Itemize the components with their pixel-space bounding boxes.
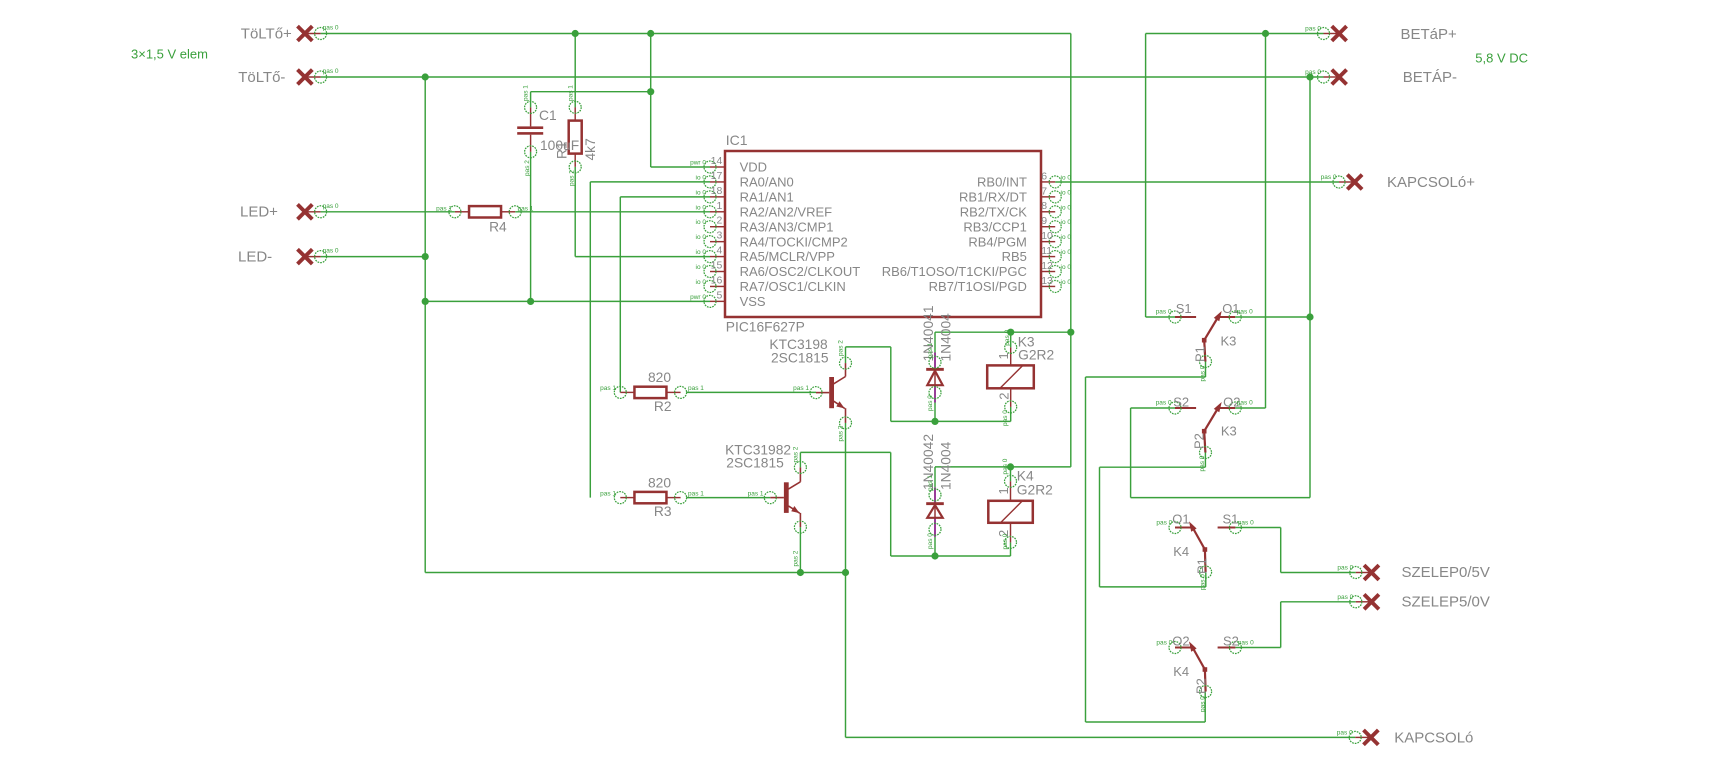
svg-text:RB3/CCP1: RB3/CCP1 [963, 219, 1027, 234]
svg-text:RA6/OSC2/CLKOUT: RA6/OSC2/CLKOUT [740, 264, 861, 279]
svg-text:pas 0: pas 0 [1002, 458, 1009, 474]
svg-text:pas 0: pas 0 [927, 533, 934, 549]
svg-text:G2R2: G2R2 [1018, 348, 1054, 363]
svg-text:pas 0: pas 0 [1002, 533, 1009, 549]
svg-text:pas 0: pas 0 [1156, 309, 1172, 316]
svg-text:3×1,5 V elem: 3×1,5 V elem [131, 47, 208, 62]
svg-text:KTC3198: KTC3198 [769, 337, 828, 352]
svg-text:RB6/T1OSO/T1CKI/PGC: RB6/T1OSO/T1CKI/PGC [882, 264, 1027, 279]
svg-text:7: 7 [1041, 185, 1047, 197]
svg-text:SZELEP5/0V: SZELEP5/0V [1402, 594, 1490, 611]
svg-text:pas 2: pas 2 [524, 160, 531, 176]
svg-text:1: 1 [996, 487, 1011, 494]
svg-text:pas 0: pas 0 [1337, 594, 1353, 601]
svg-text:pas 1: pas 1 [518, 205, 534, 212]
svg-text:pas 0: pas 0 [1002, 410, 1009, 426]
svg-text:R2: R2 [654, 399, 672, 414]
svg-text:io 0: io 0 [696, 264, 707, 271]
svg-text:11: 11 [1041, 245, 1052, 257]
svg-text:pas 1: pas 1 [436, 205, 452, 212]
svg-text:9: 9 [1041, 215, 1047, 227]
svg-text:S1: S1 [1176, 301, 1192, 316]
svg-text:P1: P1 [1194, 558, 1209, 574]
svg-text:LED+: LED+ [240, 204, 278, 221]
svg-text:pas 0: pas 0 [323, 25, 339, 32]
svg-text:O1: O1 [1172, 511, 1189, 526]
svg-text:P2: P2 [1194, 678, 1209, 694]
svg-text:PIC16F627P: PIC16F627P [726, 320, 805, 335]
svg-text:RA4/TOCKI/CMP2: RA4/TOCKI/CMP2 [740, 234, 848, 249]
svg-text:pas 2: pas 2 [793, 550, 800, 566]
svg-text:P2: P2 [1191, 433, 1206, 449]
svg-text:pas 0: pas 0 [927, 395, 934, 411]
svg-text:RA2/AN2/VREF: RA2/AN2/VREF [740, 204, 833, 219]
svg-text:14: 14 [711, 155, 723, 167]
svg-text:RB2/TX/CK: RB2/TX/CK [960, 204, 1028, 219]
svg-text:pwr 0: pwr 0 [690, 294, 706, 301]
svg-text:io 0: io 0 [696, 249, 707, 256]
svg-text:1: 1 [996, 352, 1011, 359]
svg-text:pas 1: pas 1 [688, 385, 704, 392]
svg-text:820: 820 [648, 475, 671, 490]
svg-text:2SC1815: 2SC1815 [771, 351, 829, 366]
svg-text:pas 1: pas 1 [927, 342, 934, 358]
svg-text:pas 0: pas 0 [1305, 26, 1321, 33]
svg-text:pas 0: pas 0 [323, 248, 339, 255]
svg-text:LED-: LED- [238, 248, 272, 265]
svg-text:pas 0: pas 0 [1004, 329, 1011, 345]
svg-text:io 0: io 0 [1061, 279, 1072, 286]
svg-text:pas 1: pas 1 [523, 85, 530, 101]
svg-text:io 0: io 0 [696, 174, 707, 181]
svg-text:io 0: io 0 [696, 189, 707, 196]
svg-text:5,8 V DC: 5,8 V DC [1475, 51, 1528, 66]
svg-text:13: 13 [1041, 275, 1053, 287]
svg-text:RA3/AN3/CMP1: RA3/AN3/CMP1 [740, 219, 834, 234]
svg-text:io 0: io 0 [1061, 204, 1072, 211]
svg-text:IC1: IC1 [726, 132, 748, 148]
svg-text:TöLTő-: TöLTő- [238, 69, 285, 86]
svg-text:pas 0: pas 0 [1156, 400, 1172, 407]
svg-text:pas 0: pas 0 [1200, 365, 1207, 381]
svg-text:S2: S2 [1173, 395, 1189, 410]
svg-text:pas 1: pas 1 [748, 490, 764, 497]
svg-text:pas 1: pas 1 [600, 385, 616, 392]
svg-text:pas 1: pas 1 [927, 475, 934, 491]
svg-text:K3: K3 [1221, 424, 1237, 439]
svg-text:io 0: io 0 [1061, 249, 1072, 256]
svg-text:RA1/AN1: RA1/AN1 [740, 189, 794, 204]
svg-text:pas 0: pas 0 [323, 203, 339, 210]
svg-text:pas 0: pas 0 [1237, 400, 1253, 407]
svg-text:4k7: 4k7 [583, 138, 598, 160]
svg-text:io 0: io 0 [696, 219, 707, 226]
svg-text:pas 0: pas 0 [1237, 309, 1253, 316]
svg-text:pas 0: pas 0 [1156, 640, 1172, 647]
svg-text:RB7/T1OSI/PGD: RB7/T1OSI/PGD [929, 279, 1027, 294]
svg-text:pas 2: pas 2 [838, 425, 845, 441]
svg-text:TöLTő+: TöLTő+ [241, 25, 292, 42]
svg-text:io 0: io 0 [696, 234, 707, 241]
svg-text:pas 0: pas 0 [1305, 69, 1321, 76]
svg-text:1: 1 [716, 200, 722, 212]
svg-text:S2: S2 [1223, 634, 1239, 649]
svg-text:pas 2: pas 2 [838, 340, 845, 356]
svg-text:pas 2: pas 2 [568, 170, 575, 186]
svg-text:SZELEP0/5V: SZELEP0/5V [1402, 564, 1490, 581]
svg-text:pwr 0: pwr 0 [690, 160, 706, 167]
svg-text:VSS: VSS [740, 294, 766, 309]
svg-text:12: 12 [1041, 260, 1053, 272]
svg-text:2: 2 [997, 393, 1012, 400]
svg-text:io 0: io 0 [1061, 219, 1072, 226]
svg-text:pas 1: pas 1 [568, 85, 575, 101]
svg-text:K4: K4 [1173, 664, 1189, 679]
svg-text:pas 0: pas 0 [1200, 574, 1207, 590]
svg-text:pas 1: pas 1 [793, 385, 809, 392]
svg-text:3: 3 [716, 230, 722, 242]
svg-text:C1: C1 [539, 108, 557, 123]
svg-text:RB1/RX/DT: RB1/RX/DT [959, 189, 1027, 204]
svg-text:pas 0: pas 0 [1321, 174, 1337, 181]
svg-text:10: 10 [1041, 230, 1053, 242]
svg-text:17: 17 [711, 170, 723, 182]
svg-text:io 0: io 0 [696, 204, 707, 211]
svg-text:RA5/MCLR/VPP: RA5/MCLR/VPP [740, 249, 835, 264]
svg-text:io 0: io 0 [1061, 264, 1072, 271]
svg-text:pas 2: pas 2 [793, 446, 800, 462]
svg-text:RB0/INT: RB0/INT [977, 175, 1027, 190]
svg-text:KAPCSOLó: KAPCSOLó [1394, 729, 1473, 746]
svg-text:5: 5 [716, 289, 722, 301]
svg-text:pas 0: pas 0 [1238, 640, 1254, 647]
svg-text:KAPCSOLó+: KAPCSOLó+ [1387, 174, 1475, 191]
svg-text:BETáP+: BETáP+ [1401, 26, 1458, 43]
svg-text:K4: K4 [1173, 544, 1189, 559]
svg-text:15: 15 [711, 260, 723, 272]
svg-text:io 0: io 0 [696, 279, 707, 286]
svg-text:pas 0: pas 0 [1199, 455, 1206, 471]
svg-text:R3: R3 [654, 504, 672, 519]
svg-text:K4: K4 [1017, 469, 1034, 484]
svg-text:RA7/OSC1/CLKIN: RA7/OSC1/CLKIN [740, 279, 846, 294]
svg-text:io 0: io 0 [1061, 174, 1072, 181]
svg-text:RA0/AN0: RA0/AN0 [740, 175, 794, 190]
svg-text:pas 0: pas 0 [1337, 729, 1353, 736]
svg-text:16: 16 [711, 274, 723, 286]
svg-text:1N4004: 1N4004 [939, 441, 954, 490]
svg-text:pas 1: pas 1 [600, 490, 616, 497]
svg-text:P1: P1 [1193, 346, 1208, 362]
svg-text:2SC1815: 2SC1815 [726, 456, 784, 471]
svg-text:pas 1: pas 1 [688, 490, 704, 497]
svg-text:VDD: VDD [740, 160, 767, 175]
svg-text:6: 6 [1041, 170, 1047, 182]
svg-text:pas 0: pas 0 [1337, 565, 1353, 572]
svg-text:2: 2 [716, 215, 722, 227]
svg-text:R1: R1 [554, 141, 569, 159]
svg-text:RB4/PGM: RB4/PGM [968, 234, 1027, 249]
svg-text:S1: S1 [1223, 511, 1239, 526]
svg-text:K3: K3 [1221, 334, 1237, 349]
svg-text:4: 4 [716, 245, 722, 257]
svg-text:1N4004: 1N4004 [939, 313, 954, 362]
svg-text:BETÁP-: BETÁP- [1403, 69, 1457, 86]
svg-text:pas 0: pas 0 [1238, 520, 1254, 527]
svg-text:G2R2: G2R2 [1017, 483, 1053, 498]
svg-text:820: 820 [648, 370, 671, 385]
svg-text:R4: R4 [489, 220, 507, 235]
svg-text:io 0: io 0 [1061, 189, 1072, 196]
svg-text:8: 8 [1041, 200, 1047, 212]
svg-text:io 0: io 0 [1061, 234, 1072, 241]
svg-text:18: 18 [711, 185, 723, 197]
svg-text:RB5: RB5 [1002, 249, 1027, 264]
svg-text:pas 0: pas 0 [1200, 696, 1207, 712]
svg-text:pas 0: pas 0 [323, 68, 339, 75]
svg-text:O2: O2 [1172, 634, 1189, 649]
svg-text:pas 0: pas 0 [1156, 520, 1172, 527]
